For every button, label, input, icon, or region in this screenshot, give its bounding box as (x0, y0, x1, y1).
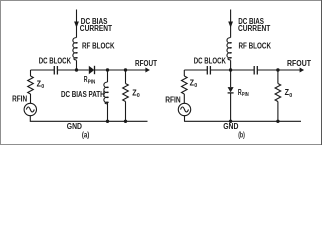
capacitor DC BLOCK output (b) (253, 66, 255, 75)
inductor RF BLOCK (a) (73, 38, 77, 61)
svg-text:DC BIAS PATH: DC BIAS PATH (61, 90, 105, 99)
wire: diode to output (a) (95, 69, 147, 71)
node: rail / RF-block junction (b) (229, 68, 232, 71)
svg-text:DC BLOCK: DC BLOCK (194, 56, 226, 65)
svg-text:0: 0 (194, 83, 197, 89)
wire: cap to junction (b) (211, 69, 254, 71)
resistor Z0 source side (a) (28, 76, 34, 94)
svg-text:0: 0 (41, 84, 44, 90)
svg-text:RFIN: RFIN (165, 95, 181, 104)
wire: main rail left segment (b) (184, 69, 207, 71)
svg-text:RF BLOCK: RF BLOCK (239, 42, 272, 51)
capacitor DC BLOCK (a) (53, 66, 55, 75)
arrow: DC bias current direction (a) (74, 22, 79, 28)
svg-text:RFIN: RFIN (12, 94, 27, 103)
arrow: DC bias current direction (b) (228, 22, 233, 28)
node: load / ground junction (a) (124, 120, 127, 123)
diode RPIN (a) (89, 66, 95, 74)
arrow RFOUT (b) (300, 68, 305, 73)
wire: feed to main rail (a) (76, 60, 78, 70)
inductor DC BIAS PATH (a) (107, 70, 109, 82)
wire: feed to main rail (b) (230, 60, 232, 70)
svg-text:(a): (a) (82, 131, 90, 140)
diode RPIN shunt (b) (230, 70, 232, 87)
wire: main rail left segment (a) (31, 69, 55, 71)
wire: source branch upper (b) (183, 70, 185, 76)
source RFIN generator (b) (178, 103, 190, 115)
svg-text:GND: GND (67, 122, 83, 131)
wire: source to ground rail (b) (183, 116, 185, 122)
source RFIN generator (a) (24, 103, 36, 115)
wire: resistor to source (a) (30, 94, 32, 103)
arrow RFOUT (a) (145, 68, 150, 73)
wire: source to ground rail (a) (29, 116, 31, 122)
wire: cap to output (b) (258, 69, 301, 71)
inductor RF BLOCK (b) (227, 38, 231, 61)
wire: source branch upper (a) (30, 70, 32, 76)
svg-text:RF BLOCK: RF BLOCK (82, 42, 115, 51)
node: diode / ground junction (b) (229, 120, 232, 123)
svg-text:0: 0 (289, 93, 292, 99)
svg-text:(b): (b) (238, 131, 245, 140)
node: rail / Z0 junction (a) (124, 68, 127, 71)
capacitor DC BLOCK input (b) (206, 66, 208, 75)
resistor Z0 load (a) (125, 70, 127, 84)
wire: DC bias feed vertical (b) (230, 10, 232, 38)
svg-text:CURRENT: CURRENT (80, 24, 112, 33)
resistor Z0 load (b) (277, 70, 279, 84)
svg-text:CURRENT: CURRENT (238, 24, 270, 33)
node: rail / Z0 junction (b) (276, 68, 279, 71)
svg-text:RFOUT: RFOUT (287, 59, 311, 68)
svg-text:RFOUT: RFOUT (135, 59, 157, 68)
svg-text:PIN: PIN (242, 92, 249, 98)
svg-text:0: 0 (137, 93, 140, 99)
svg-text:PIN: PIN (88, 79, 96, 85)
wire: resistor to source (b) (183, 94, 185, 103)
node: bias path / ground junction (a) (106, 120, 109, 123)
resistor Z0 source side (b) (182, 76, 188, 94)
frame border (1, 1, 322, 145)
node: rail / RF-block junction (a) (75, 68, 78, 71)
node: load / ground junction (b) (276, 120, 279, 123)
svg-text:GND: GND (223, 122, 239, 131)
wire: ground rail (b) (184, 120, 301, 122)
node: rail / bias-path junction (a) (106, 68, 109, 71)
wire: DC bias feed vertical (a) (76, 10, 78, 38)
svg-text:DC BLOCK: DC BLOCK (39, 56, 72, 65)
wire: cap to diode (a) (58, 69, 89, 71)
wire: ground rail (a) (31, 120, 148, 122)
